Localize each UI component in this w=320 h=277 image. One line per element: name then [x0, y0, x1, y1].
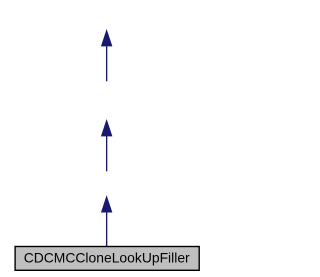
wire: inheritance edge 1 shaft [106, 46, 108, 82]
arrowhead of inheritance edge 2 [101, 120, 112, 136]
svg-text:CDCMCCloneLookUpFiller: CDCMCCloneLookUpFiller [24, 249, 190, 265]
inheritance diagram for CDCMCCloneLookUpFiller (doxygen/graphviz style) [0, 0, 213, 277]
arrowhead of inheritance edge 3 [101, 196, 112, 212]
wire: inheritance edge 2 shaft [106, 136, 108, 172]
arrowhead of inheritance edge 1 [101, 30, 112, 46]
wire: inheritance edge 3 shaft [106, 212, 108, 247]
class box CDCMCCloneLookUpFiller [15, 247, 199, 271]
